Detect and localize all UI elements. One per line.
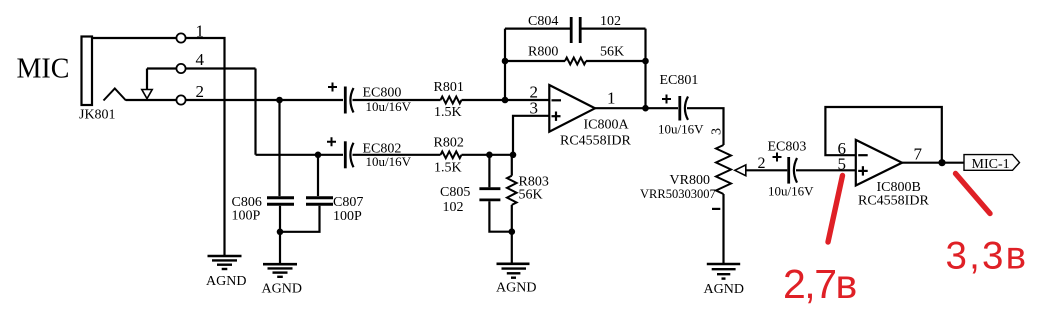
svg-text:2,7в: 2,7в [783,261,856,307]
svg-text:2: 2 [196,82,205,101]
svg-text:MIC-1: MIC-1 [972,157,1010,172]
svg-text:7: 7 [914,145,923,164]
svg-text:1: 1 [607,89,616,108]
svg-text:10u/16V: 10u/16V [366,154,412,169]
svg-text:AGND: AGND [206,274,246,289]
svg-text:VRR50303007: VRR50303007 [640,187,716,201]
svg-text:C804: C804 [528,14,558,29]
svg-text:R801: R801 [434,80,464,95]
svg-text:102: 102 [600,14,621,29]
svg-text:5: 5 [838,155,847,174]
svg-text:10u/16V: 10u/16V [658,121,704,136]
svg-text:MIC: MIC [17,54,70,85]
svg-text:1.5K: 1.5K [434,105,462,120]
svg-text:R802: R802 [434,135,464,150]
svg-text:AGND: AGND [262,281,302,296]
svg-text:56K: 56K [600,45,624,60]
svg-text:1: 1 [196,21,205,40]
svg-text:C807: C807 [333,195,363,210]
svg-text:3: 3 [530,98,539,117]
svg-text:3,3в: 3,3в [946,235,1029,278]
svg-text:10u/16V: 10u/16V [768,184,814,199]
svg-text:EC801: EC801 [660,73,699,88]
svg-text:4: 4 [196,50,205,69]
svg-text:10u/16V: 10u/16V [366,99,412,114]
svg-text:2: 2 [758,155,766,172]
svg-text:3: 3 [710,128,725,135]
svg-text:56K: 56K [519,188,543,203]
svg-text:C805: C805 [440,185,470,200]
svg-text:102: 102 [443,200,464,215]
svg-text:1.5K: 1.5K [434,160,462,175]
svg-text:VR800: VR800 [670,173,710,188]
svg-text:IC800A: IC800A [584,118,630,133]
svg-text:AGND: AGND [496,280,536,295]
svg-text:R800: R800 [528,45,558,60]
svg-text:100P: 100P [232,208,261,223]
svg-text:RC4558IDR: RC4558IDR [858,193,929,208]
svg-text:100P: 100P [333,209,362,224]
svg-text:AGND: AGND [704,282,744,297]
svg-text:JK801: JK801 [79,108,116,123]
svg-text:RC4558IDR: RC4558IDR [560,133,631,148]
svg-text:EC803: EC803 [768,140,807,155]
